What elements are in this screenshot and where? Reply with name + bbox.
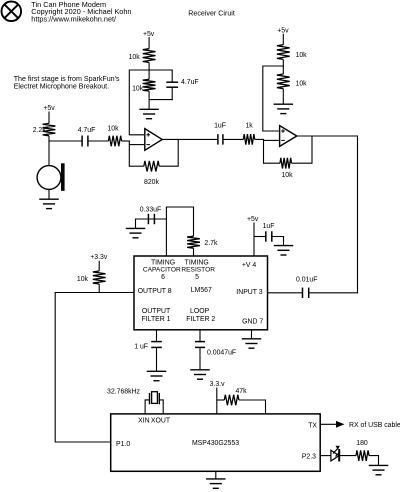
wire +5v to R upper bbox=[282, 34, 284, 45]
wire +5v to R 10k upper bbox=[148, 37, 150, 49]
wire R 2.2k to node A bbox=[48, 136, 50, 142]
wire R pullup to output8 wire bbox=[98, 284, 100, 293]
resistor 180 bbox=[356, 450, 369, 461]
wire TX bbox=[320, 423, 338, 425]
bottom rail divider1 bbox=[149, 99, 173, 101]
wire inverting input U1 bbox=[129, 144, 144, 146]
svg-text:10k: 10k bbox=[129, 54, 141, 61]
logo crossed circle bbox=[2, 2, 22, 22]
svg-text:CAPACITOR: CAPACITOR bbox=[143, 267, 181, 274]
svg-text:1uF: 1uF bbox=[263, 223, 275, 230]
svg-text:10k: 10k bbox=[107, 126, 119, 133]
resistor 10k (divider2 upper) bbox=[277, 45, 290, 60]
resistor 10k (divider1 lower) bbox=[148, 70, 150, 79]
ground (divider 2) bbox=[274, 103, 294, 105]
wire R 180 to ground bbox=[369, 456, 379, 465]
svg-text:MSP430G2553: MSP430G2553 bbox=[192, 440, 239, 447]
svg-text:1uF: 1uF bbox=[214, 122, 226, 129]
svg-text:XOUT: XOUT bbox=[151, 418, 171, 425]
svg-text:TX: TX bbox=[308, 422, 317, 429]
wire U2 output bbox=[297, 136, 358, 293]
IC LM567 body bbox=[134, 256, 268, 330]
wire inverting input U2 bbox=[264, 139, 279, 141]
svg-text:+V 4: +V 4 bbox=[242, 262, 257, 269]
ground (output filter) bbox=[147, 370, 167, 372]
op-amp U1 bbox=[145, 129, 162, 151]
svg-text:+5v: +5v bbox=[277, 27, 289, 34]
wire R 47k to RST pin bbox=[239, 400, 266, 414]
ground (MSP430) bbox=[206, 478, 226, 480]
wire R 1k to inverting node U2 bbox=[255, 138, 264, 140]
resistor 10k (feedback U2) bbox=[280, 158, 292, 169]
svg-text:+5v: +5v bbox=[247, 216, 259, 223]
wire OUTPUT 8 bbox=[55, 292, 134, 294]
feedback wire right U2 bbox=[292, 136, 313, 163]
svg-text:+5v: +5v bbox=[143, 31, 155, 38]
wire R 2.7k to pin5 bbox=[193, 248, 195, 256]
wire +3.3v to R 10k pullup bbox=[98, 261, 100, 271]
capacitor 1uF (bypass) bbox=[265, 231, 267, 241]
svg-text:LM567: LM567 bbox=[191, 287, 212, 294]
wire R lower to bottom rail bbox=[148, 91, 150, 100]
wire C to ground pin2 bbox=[199, 347, 201, 369]
svg-text:2.7k: 2.7k bbox=[204, 240, 218, 247]
ground (loop filter) bbox=[190, 369, 210, 371]
svg-text:https://www.mikekohn.net/: https://www.mikekohn.net/ bbox=[31, 15, 117, 24]
ground (0.33uF) bbox=[126, 227, 146, 229]
LED D1 bbox=[331, 446, 340, 462]
wire down to R 2.7k bbox=[193, 207, 195, 236]
ground (LM567 GND) bbox=[242, 338, 262, 340]
crystal Y1 bbox=[150, 392, 160, 405]
svg-text:Receiver Ciruit: Receiver Ciruit bbox=[188, 9, 235, 17]
svg-text:+3.3v: +3.3v bbox=[90, 254, 108, 261]
svg-text:2.2k: 2.2k bbox=[33, 127, 47, 134]
svg-text:32.768kHz: 32.768kHz bbox=[107, 389, 140, 396]
svg-text:TIMING: TIMING bbox=[151, 259, 175, 266]
svg-text:FILTER 2: FILTER 2 bbox=[186, 316, 215, 323]
resistor 1k bbox=[243, 134, 254, 145]
svg-text:10k: 10k bbox=[77, 276, 89, 283]
wire R to node C bbox=[282, 59, 284, 66]
wire C 0.01uF to LM567 INPUT bbox=[268, 292, 303, 294]
wire MSP430 ground bbox=[215, 471, 217, 478]
node C rail bbox=[262, 65, 284, 67]
wire C 0.33uF left to ground bbox=[136, 219, 149, 228]
resistor 820k (feedback U1) bbox=[144, 161, 159, 172]
wire +V to C 1uF bypass bbox=[254, 236, 266, 238]
ground (LED) bbox=[369, 464, 389, 466]
wire C to R 10k bbox=[88, 140, 109, 142]
svg-text:6: 6 bbox=[161, 274, 165, 281]
capacitor 4.7uF (bypass) bbox=[166, 81, 178, 83]
svg-text:180: 180 bbox=[356, 440, 368, 447]
wire junction inverting node down bbox=[128, 141, 130, 167]
feedback wire left bbox=[129, 165, 144, 167]
svg-text:10k: 10k bbox=[296, 81, 308, 88]
svg-text:LOOP: LOOP bbox=[190, 308, 210, 315]
svg-text:4.7uF: 4.7uF bbox=[78, 127, 96, 134]
wire to ground divider2 bbox=[282, 89, 284, 104]
op-amp U2 bbox=[280, 126, 297, 147]
svg-text:820k: 820k bbox=[144, 179, 159, 186]
node B rail bbox=[129, 69, 173, 71]
wire node B to op-amp1 +input bbox=[129, 71, 144, 135]
svg-text:Electret Microphone Breakout.: Electret Microphone Breakout. bbox=[14, 83, 109, 91]
svg-text:4.7uF: 4.7uF bbox=[181, 79, 199, 86]
resistor 2.7k (timing) bbox=[187, 236, 200, 248]
svg-text:47k: 47k bbox=[235, 388, 247, 395]
IC MSP430G2553 body bbox=[111, 414, 321, 471]
svg-text:+5v: +5v bbox=[43, 105, 55, 112]
capacitor 1uF (coupling) bbox=[217, 134, 219, 144]
svg-text:5: 5 bbox=[195, 274, 199, 281]
resistor 10k (pull-up) bbox=[93, 271, 106, 284]
MSP430 labels bbox=[116, 418, 317, 461]
svg-text:GND 7: GND 7 bbox=[242, 319, 263, 326]
wire C 1uF to R 1k bbox=[223, 138, 244, 140]
wire to C 0.01uF bbox=[308, 292, 357, 294]
svg-text:FILTER 1: FILTER 1 bbox=[142, 316, 171, 323]
feedback wire left U2 bbox=[264, 162, 281, 164]
wire R 10k to inverting node bbox=[122, 140, 130, 142]
wire LED to R 180 bbox=[339, 455, 356, 457]
svg-text:0.01uF: 0.01uF bbox=[296, 277, 317, 284]
wire pin6 up bbox=[165, 207, 167, 256]
wire pin6 to C 0.33uF bbox=[148, 218, 166, 220]
svg-text:0.33uF: 0.33uF bbox=[140, 207, 161, 214]
svg-text:XIN: XIN bbox=[138, 418, 150, 425]
ground (1uF bypass) bbox=[274, 245, 294, 247]
svg-text:10k: 10k bbox=[296, 52, 308, 59]
svg-text:10k: 10k bbox=[281, 172, 293, 179]
wire 3.3v node to R 47k bbox=[217, 399, 225, 401]
title text bbox=[31, 0, 131, 24]
LM567 labels bbox=[138, 259, 264, 325]
resistor 47k bbox=[224, 395, 239, 406]
wire node B to C 4.7uF bypass bbox=[171, 70, 173, 82]
wire pin7 GND down bbox=[251, 330, 253, 339]
svg-text:1k: 1k bbox=[245, 122, 253, 129]
svg-text:0.0047uF: 0.0047uF bbox=[207, 350, 236, 357]
feedback wire right bbox=[159, 139, 178, 166]
svg-text:RX of USB cable: RX of USB cable bbox=[349, 422, 400, 429]
wire 3.3v down bbox=[216, 388, 218, 414]
wire U1 output bbox=[162, 138, 218, 140]
svg-text:P1.0: P1.0 bbox=[116, 441, 130, 448]
wire XIN up bbox=[145, 400, 149, 414]
wire R to node B bbox=[148, 63, 150, 71]
wire C bypass to bottom rail bbox=[171, 87, 173, 100]
resistor 10k (divider2 lower) bbox=[282, 66, 284, 74]
resistor 10k (input) bbox=[108, 136, 121, 147]
wire node C to op-amp2 +input bbox=[263, 67, 279, 131]
wire +5v to +V pin4 bbox=[253, 223, 255, 257]
resistor 2.2k bbox=[43, 123, 56, 135]
svg-text:RESISTOR: RESISTOR bbox=[181, 267, 215, 274]
node A wire to C 4.7uF bbox=[48, 140, 82, 142]
capacitor 0.33uF bbox=[147, 214, 149, 224]
wire P2.3 bbox=[320, 455, 331, 457]
electret microphone MK1 bbox=[37, 141, 65, 199]
wire C to ground pin1 bbox=[156, 347, 158, 371]
wire C 1uF to ground bbox=[272, 237, 284, 246]
capacitor 4.7uF (coupling) bbox=[81, 136, 83, 147]
svg-text:3.3.v: 3.3.v bbox=[210, 381, 225, 388]
capacitor 0.0047uF (loop filter) bbox=[195, 341, 205, 343]
svg-text:TIMING: TIMING bbox=[185, 259, 209, 266]
wire XOUT up bbox=[159, 400, 163, 414]
svg-text:INPUT 3: INPUT 3 bbox=[236, 289, 262, 296]
capacitor 1uF (output filter) bbox=[151, 341, 162, 343]
wire +5v to R 2.2k bbox=[48, 112, 50, 124]
wire pin2 down bbox=[199, 330, 201, 342]
wire pin1 down bbox=[156, 330, 158, 342]
svg-text:P2.3: P2.3 bbox=[302, 453, 316, 460]
ground (microphone) bbox=[39, 198, 59, 200]
resistor 10k (divider1 upper) bbox=[143, 49, 156, 63]
arrow to USB bbox=[336, 421, 345, 428]
svg-text:OUTPUT: OUTPUT bbox=[142, 308, 171, 315]
wire inverting junction down bbox=[263, 139, 265, 163]
note text bbox=[14, 75, 120, 91]
svg-text:10k: 10k bbox=[132, 85, 144, 92]
capacitor 0.01uF bbox=[302, 288, 304, 298]
wire left rail to P1.0 bbox=[55, 293, 110, 443]
wire pin6 top to R 2.7k bbox=[166, 206, 194, 208]
svg-text:OUTPUT 8: OUTPUT 8 bbox=[138, 288, 172, 295]
ground (divider 1) bbox=[139, 108, 159, 110]
svg-text:1 uF: 1 uF bbox=[134, 344, 148, 351]
wire to ground divider1 bbox=[148, 100, 150, 109]
